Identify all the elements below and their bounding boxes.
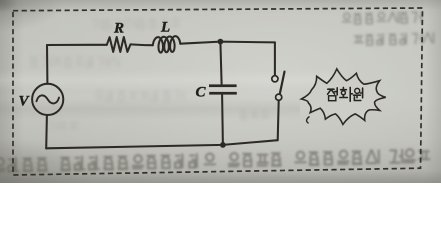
wire left branch upper	[46, 45, 48, 84]
wire L to node and to right corner	[180, 42, 275, 44]
ghost text top-right (bleed-through, blurred)	[342, 11, 434, 45]
voltage source V circle	[32, 84, 63, 115]
switch blade	[280, 72, 285, 94]
svg-text:C: C	[196, 85, 207, 101]
wire left branch lower	[45, 115, 48, 148]
resistor R	[107, 37, 131, 52]
bottom-left corner dark	[0, 120, 130, 183]
svg-text:R: R	[113, 21, 124, 37]
label 점화원 (drawn strokes)	[328, 87, 363, 101]
inductor L	[153, 36, 181, 52]
ghost text bottom row	[0, 149, 430, 172]
node dot bottom	[220, 142, 226, 148]
bottom edge dark band	[0, 170, 441, 183]
capacitor C plates	[209, 84, 237, 94]
top edge slight dark	[0, 0, 441, 10]
wire bottom	[46, 140, 278, 148]
capacitor branch upper wire	[220, 42, 221, 84]
svg-text:L: L	[160, 20, 170, 36]
small curl at starburst lower-left	[307, 117, 310, 124]
syllable 원	[355, 88, 360, 93]
starburst bubble (ignition source)	[301, 69, 385, 125]
bright streak band	[0, 70, 340, 90]
syllable 화	[341, 87, 347, 89]
right edge slight dark	[425, 0, 441, 183]
ghost text faint interior	[30, 18, 269, 131]
left edge darker shading	[0, 0, 24, 183]
wire top left	[47, 44, 107, 46]
switch contact circle bottom	[276, 94, 282, 100]
dashed border	[13, 8, 423, 175]
component labels	[19, 20, 207, 110]
wire right branch upper	[274, 42, 276, 75]
wire right branch lower	[278, 100, 279, 140]
capacitor branch lower wire	[221, 95, 224, 145]
wire R to L	[131, 43, 153, 46]
svg-text:V: V	[19, 94, 31, 110]
dark streak band	[0, 98, 300, 120]
switch contact circle top	[272, 76, 278, 82]
sine wave inside source	[37, 95, 60, 103]
syllable 점	[328, 89, 335, 94]
top-left corner dark	[0, 0, 90, 45]
node dot top (junction of C branch)	[218, 39, 224, 45]
